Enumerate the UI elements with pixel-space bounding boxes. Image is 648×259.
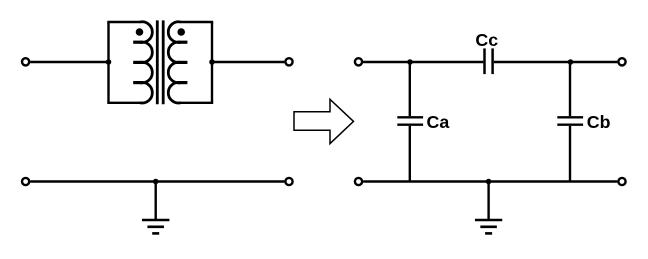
node B (junction dot): [568, 59, 574, 65]
wire (branch A upper): [409, 62, 411, 116]
wire (box right vertical): [211, 22, 213, 103]
wire (Cc to top-right): [494, 61, 618, 63]
capacitor Cc: [485, 48, 493, 74]
wire (bottom conductor): [30, 180, 284, 182]
svg-text:Cc: Cc: [475, 30, 498, 50]
node (ground junction dot right circuit): [486, 179, 492, 185]
transformer T1: [22, 20, 293, 104]
core line 2: [162, 20, 165, 104]
capacitor Ca: [397, 117, 423, 124]
secondary winding return bars: [178, 42, 187, 82]
node (junction dot right): [209, 59, 215, 65]
wire (top-left to Cc): [363, 61, 483, 63]
wire (top-left horizontal to winding): [107, 21, 140, 23]
wire (bottom-left horizontal from winding): [107, 102, 140, 104]
node A (junction dot): [407, 59, 413, 65]
primary winding: [140, 22, 152, 103]
wire (top-right horizontal from winding): [180, 21, 213, 23]
secondary winding: [168, 22, 180, 103]
wire (branch B upper): [569, 62, 571, 116]
terminal (right circuit top-right): [618, 58, 625, 65]
svg-text:Ca: Ca: [427, 112, 450, 132]
wire (branch B lower): [569, 126, 571, 182]
terminal (right circuit bottom-right): [618, 178, 625, 185]
wire (bottom-right horizontal from winding): [180, 102, 213, 104]
wire (branch A lower): [409, 126, 411, 182]
wire (left terminal to box): [30, 61, 108, 63]
wire (box to right terminal): [212, 61, 284, 63]
arrow (equivalence): [294, 99, 354, 143]
ground: [142, 182, 170, 234]
equivalent pi network: [355, 30, 626, 234]
terminal (top-left open circle): [22, 58, 29, 65]
core line 1: [156, 20, 159, 104]
terminal (right circuit top-left): [355, 58, 362, 65]
phase dot (primary): [136, 28, 144, 36]
bottom-left return line: [22, 178, 293, 234]
phase dot (secondary): [177, 28, 185, 36]
terminal (right circuit bottom-left): [355, 178, 362, 185]
node (ground junction dot): [153, 179, 159, 185]
primary winding return bars: [133, 42, 142, 82]
wire (bottom conductor right circuit): [363, 180, 617, 182]
node (junction dot left): [106, 59, 112, 65]
ground: [475, 182, 502, 234]
wire (box left vertical): [107, 22, 109, 103]
terminal (bottom-right open circle): [285, 178, 292, 185]
svg-text:Cb: Cb: [587, 112, 611, 132]
terminal (top-right open circle): [285, 58, 292, 65]
terminal (bottom-left open circle): [22, 178, 29, 185]
capacitor Cb: [557, 117, 583, 124]
